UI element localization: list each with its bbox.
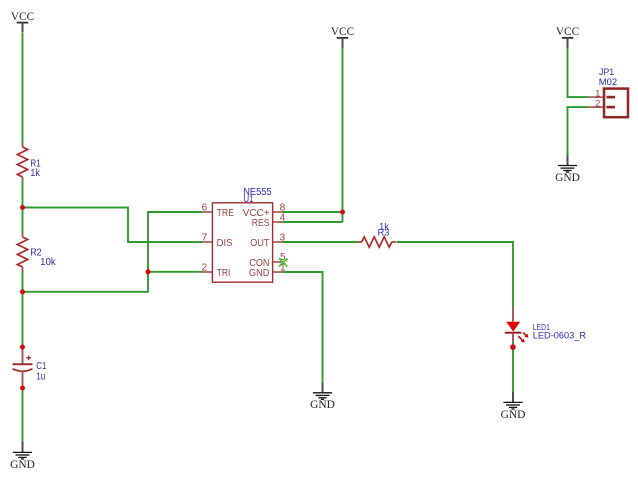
svg-text:2: 2 bbox=[202, 262, 208, 273]
svg-text:VCC: VCC bbox=[11, 9, 34, 23]
svg-text:6: 6 bbox=[202, 202, 208, 213]
svg-text:DIS: DIS bbox=[217, 238, 233, 249]
svg-text:JP1: JP1 bbox=[599, 67, 614, 77]
svg-text:OUT: OUT bbox=[250, 238, 269, 249]
svg-text:RES: RES bbox=[252, 218, 270, 229]
svg-text:1u: 1u bbox=[36, 371, 45, 382]
svg-text:VCC: VCC bbox=[331, 24, 354, 38]
svg-text:GND: GND bbox=[10, 457, 35, 471]
svg-text:M02: M02 bbox=[599, 77, 617, 88]
svg-text:10k: 10k bbox=[40, 257, 56, 268]
svg-text:7: 7 bbox=[202, 232, 208, 243]
svg-text:TRI: TRI bbox=[217, 268, 231, 279]
svg-text:2: 2 bbox=[595, 99, 600, 110]
svg-text:1k: 1k bbox=[30, 168, 40, 179]
svg-text:TRE: TRE bbox=[217, 208, 235, 219]
svg-text:4: 4 bbox=[280, 213, 286, 224]
svg-text:GND: GND bbox=[555, 170, 580, 184]
svg-text:5: 5 bbox=[280, 252, 286, 263]
svg-text:GND: GND bbox=[310, 397, 335, 411]
svg-text:U1: U1 bbox=[244, 194, 254, 205]
svg-text:GND: GND bbox=[249, 268, 270, 279]
svg-text:LED-0603_R: LED-0603_R bbox=[533, 331, 587, 341]
svg-text:VCC: VCC bbox=[556, 24, 579, 38]
svg-text:1: 1 bbox=[280, 263, 286, 274]
svg-text:C1: C1 bbox=[36, 361, 46, 372]
svg-text:GND: GND bbox=[501, 407, 526, 421]
svg-text:3: 3 bbox=[280, 232, 286, 243]
svg-text:R3: R3 bbox=[378, 228, 390, 238]
